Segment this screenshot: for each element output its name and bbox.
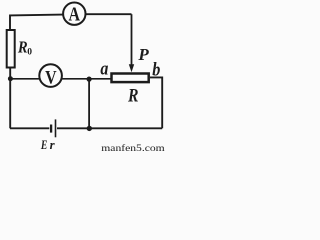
node a junction dot	[87, 77, 92, 82]
slider arrow P wire	[131, 14, 133, 64]
wire top-right segment	[86, 13, 132, 15]
svg-text:E: E	[40, 137, 47, 152]
svg-text:V: V	[45, 68, 57, 89]
wire bottom left segment	[10, 127, 49, 129]
svg-text:R: R	[127, 86, 138, 107]
battery long thin plate	[55, 119, 57, 137]
voltmeter V	[39, 64, 62, 88]
wire node a down to bottom	[88, 79, 90, 128]
wire voltmeter right to rheostat	[62, 78, 112, 80]
wire bottom right segment	[57, 127, 162, 129]
slider arrowhead	[129, 64, 134, 72]
wire voltmeter left	[10, 78, 39, 80]
wire rheostat right then right rail down	[150, 77, 162, 128]
wire top-left segment and left rail top	[10, 15, 63, 30]
resistor R0	[7, 30, 15, 68]
node bottom junction dot	[87, 126, 92, 131]
wire left rail below R0	[9, 68, 11, 129]
svg-text:A: A	[69, 3, 81, 25]
rheostat R	[112, 74, 149, 83]
svg-text:R: R	[17, 37, 28, 56]
node junction dot on left rail	[8, 76, 13, 81]
svg-text:manfen5.com: manfen5.com	[101, 143, 165, 152]
battery E r : short thick plate	[50, 125, 52, 133]
ammeter A	[63, 3, 85, 26]
svg-text:0: 0	[27, 47, 32, 57]
svg-text:P: P	[137, 45, 149, 64]
svg-text:a: a	[100, 60, 108, 80]
